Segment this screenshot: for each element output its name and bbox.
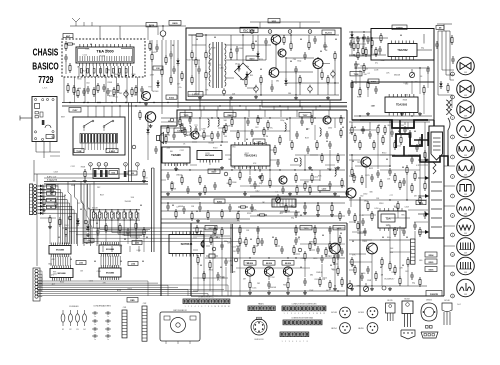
svg-text:88: 88 [220,145,222,147]
svg-text:L104: L104 [131,263,135,266]
svg-text:BC548: BC548 [331,312,337,314]
svg-text:2K2: 2K2 [255,127,258,129]
coil L1 [208,118,209,128]
capacitor C93 [267,281,271,289]
IC U8 SN76544 [169,232,204,257]
svg-text:2K2: 2K2 [405,271,408,273]
legend vertical strip CN10 [122,307,127,338]
label box BF459 R [244,261,256,266]
test point row [89,163,140,171]
svg-text:R412: R412 [369,168,373,170]
svg-text:120R: 120R [304,182,309,184]
svg-text:C112: C112 [71,166,75,168]
svg-text:100n: 100n [387,237,391,239]
capacitor C131 [423,211,427,219]
svg-text:R518: R518 [247,213,251,215]
wire vif h2 [161,141,228,143]
svg-text:88: 88 [330,265,332,267]
resistor R56 [274,145,276,155]
resistor R72 [257,115,259,125]
title: CHASIS BASICO 7729 [32,46,59,89]
CRT gun [431,132,443,160]
legend fuse F3 [76,310,80,331]
resistor R88 [329,241,331,251]
svg-text:3: 3 [452,117,453,119]
svg-text:88: 88 [64,195,66,197]
svg-text:C112: C112 [380,60,384,62]
resistor R112 [357,221,359,231]
lower fan extensions to chroma [37,285,228,296]
power supply section box [186,28,341,100]
svg-text:C112: C112 [133,94,137,96]
resistor R15 [143,169,145,179]
svg-text:TP2: TP2 [357,162,360,164]
svg-text:R217: R217 [124,93,128,95]
resistor R7 [135,85,137,95]
svg-text:88: 88 [186,135,188,137]
svg-text:47u: 47u [375,62,378,64]
oscillogram 11 [457,257,475,275]
coil L2 [285,122,286,132]
capacitor C120 [410,156,414,164]
svg-text:1N4148: 1N4148 [125,201,131,203]
svg-text:120R: 120R [367,280,372,282]
svg-text:88: 88 [414,131,416,133]
svg-text:1n: 1n [94,324,96,326]
svg-text:680: 680 [415,82,418,84]
svg-text:C77: C77 [176,206,179,208]
junctions B [355,67,420,116]
wire psu bottom rail [188,94,339,96]
box A extra parts [349,36,377,60]
wire defl verticals [335,122,425,286]
diode array below U1 [82,75,134,77]
svg-text:88: 88 [240,79,242,81]
resistor R81 [304,181,306,191]
resistor R10 [151,52,153,62]
ground Q2 [149,124,153,128]
svg-text:TDA2582: TDA2582 [397,49,408,52]
svg-text:TUNE: TUNE [76,151,82,153]
wire left col stubs [38,271,42,297]
svg-text:88: 88 [335,39,337,41]
svg-text:R225: R225 [365,175,369,177]
resistor R105 [339,235,341,245]
svg-text:88: 88 [380,267,382,269]
resistor R94 [287,280,289,290]
right top corner parts [435,24,453,49]
svg-text:100n: 100n [85,49,89,51]
svg-text:1n: 1n [94,339,96,341]
svg-text:R308: R308 [363,241,367,243]
electrolytic C26 [331,70,335,78]
capacitor C74 [300,118,304,126]
svg-text:1N4148: 1N4148 [316,272,322,274]
svg-text:1N4148: 1N4148 [357,233,363,235]
capacitor C111 [347,208,351,216]
resistor R50 [184,127,186,137]
svg-text:5K6: 5K6 [131,197,134,199]
svg-text:330p: 330p [280,120,284,122]
resistor array below U1 [80,69,127,74]
svg-text:88: 88 [238,211,240,213]
svg-text:2: 2 [270,31,271,33]
svg-text:C208: C208 [405,206,409,208]
resistor R12 [170,75,172,85]
svg-text:CN1: CN1 [123,307,127,309]
svg-text:680: 680 [131,219,134,221]
svg-text:C64: C64 [231,167,234,169]
wire bus below U1 [79,66,132,77]
legend vertical strip CN11 [142,303,147,341]
svg-text:1n: 1n [94,332,96,334]
connector pin circles [34,185,46,215]
capacitor C2 [86,86,90,94]
svg-text:88: 88 [352,265,354,267]
capacitor C90 [303,278,307,286]
svg-text:BC308: BC308 [358,312,364,314]
video extra wires [161,128,335,186]
capacitor C71 [246,118,250,126]
wire fan staircase right [68,182,97,247]
IC U7 TDA2541 [231,142,270,169]
resistor R52 [225,123,227,133]
svg-text:C77: C77 [177,83,180,85]
legend TO3 pin base [421,332,438,338]
junctions mid [167,202,332,203]
svg-text:E.MHZ: E.MHZ [109,151,116,153]
resistor R67 [171,181,173,191]
svg-text:88: 88 [290,61,292,63]
svg-text:C330: C330 [275,203,279,205]
chroma mesh lines [193,236,345,278]
resistor R21 [252,41,254,51]
transistor Q32 [283,267,292,276]
resistor R118 [419,195,421,205]
resistor R72 [317,203,319,213]
EHT arc [448,118,450,156]
svg-text:E2582: E2582 [396,28,403,30]
svg-text:SN16889: SN16889 [56,250,65,252]
transistor Q10 [271,35,281,45]
resistor R97 [197,255,199,265]
oscillogram index 12 [451,294,455,298]
resistor R73 [331,203,333,213]
wire vif h5 [230,131,345,155]
svg-text:0.1: 0.1 [72,181,75,183]
svg-text:C112: C112 [255,190,259,192]
svg-text:120R: 120R [309,290,314,292]
svg-text:88: 88 [354,127,356,129]
resistor R71 [257,214,267,216]
svg-text:SN16889: SN16889 [106,249,115,251]
svg-text:R217: R217 [324,46,328,48]
left extra parts [51,185,145,237]
legend fuse F2 [69,310,73,331]
video sound subsection parts [161,117,225,141]
resistor R113 [351,257,353,267]
label kb1 [84,239,94,243]
svg-text:88: 88 [96,223,98,225]
legend fuse F4 [83,310,87,331]
label box P-WY [69,108,81,113]
junctions chroma [214,227,338,291]
wire vif verticals [176,111,335,182]
capacitor C81 [220,242,224,250]
IC U10 SN16889 A [49,243,71,258]
svg-text:5K6: 5K6 [232,146,235,148]
resistor R53 [239,170,241,180]
CRT electrode ticks [431,182,442,227]
svg-text:5K6: 5K6 [390,252,393,254]
fan between IC rows [51,256,120,266]
switch lever S1 [83,120,94,131]
resistor R23 [290,41,292,51]
label box TV07 [299,113,311,118]
legend tuner drawing [160,309,200,344]
label box L210 [318,186,330,191]
resistor R92 [249,280,251,290]
label box TV08 [350,72,362,77]
label box TV26 [146,23,157,28]
tuner bottom stubs [36,142,60,159]
svg-text:10: 10 [451,254,453,256]
svg-text:88: 88 [58,237,60,239]
component value annotations [48,39,424,293]
resistor R130 [419,227,421,237]
oscillogram index 2 [451,95,455,99]
resistor R33 [380,33,382,43]
svg-text:1n: 1n [94,316,96,318]
wire chroma verticals [198,228,338,291]
svg-text:R518: R518 [213,148,217,150]
label box L4707 [188,92,203,97]
svg-text:TDA: TDA [386,218,391,221]
zener D14 [284,78,287,86]
resistor R107 [361,175,363,185]
left connector circle column [35,269,38,298]
svg-text:88: 88 [124,239,126,241]
capacitor C21 [294,66,298,74]
svg-text:E30: E30 [156,68,159,70]
svg-text:88: 88 [298,237,300,239]
svg-text:8K2: 8K2 [87,208,90,210]
capacitor C127 [363,228,367,236]
svg-text:3: 3 [291,313,292,315]
svg-text:R518: R518 [357,96,361,98]
label box keyboard R [106,149,118,153]
resistor R5 [97,83,99,93]
junctions vif [199,117,330,192]
label box E259 [368,79,379,84]
horizontal bus pair y103/106 [62,102,347,107]
wire chroma h3 [193,290,345,292]
svg-text:4: 4 [195,306,196,308]
long routing lines keyboard to chroma [62,228,240,296]
svg-text:C112: C112 [232,246,236,248]
main bottom border [191,238,444,296]
right column connect stubs [444,166,455,266]
resistor R122 [377,125,379,135]
svg-text:3: 3 [105,164,106,166]
svg-text:TP2: TP2 [76,95,79,97]
label box BF459 G [263,261,275,266]
svg-text:88: 88 [426,159,428,161]
svg-text:47u: 47u [51,274,54,276]
svg-text:R610: R610 [77,79,81,81]
capacitor C42 [354,61,358,69]
svg-text:R412: R412 [104,254,108,256]
svg-text:C330: C330 [328,127,332,129]
label kb4 [128,262,138,266]
svg-text:R308: R308 [108,82,112,84]
label box TV05 [180,113,192,118]
label kb2 [132,241,142,245]
deflection extra wires [349,122,428,270]
coil L5 [335,167,336,177]
keyboard contact row dark [80,134,118,151]
chroma extra parts [196,225,344,287]
electrolytic pair 3 [105,170,108,177]
svg-text:0.1: 0.1 [219,65,222,67]
capacitor C79 [253,181,257,189]
transistor Q40 [361,157,371,167]
resistor R76 [340,115,342,125]
switch lever S2 [103,120,114,131]
svg-text:F1: F1 [62,329,64,331]
tuner box [32,97,65,142]
label L4004 [416,201,426,205]
video extra dots [175,117,341,170]
wire psu horizontals [226,45,339,88]
svg-text:330p: 330p [224,241,228,243]
svg-text:C330: C330 [404,95,408,97]
svg-text:88: 88 [214,37,216,39]
label box mid [214,199,225,203]
wire mid h2 [161,210,290,212]
resistor R26 [327,75,329,85]
svg-text:R610: R610 [50,181,54,183]
CRT drive arrows [418,158,429,234]
svg-text:4: 4 [452,137,453,139]
svg-text:8K2: 8K2 [228,159,231,161]
oscillogram index 4 [451,135,455,139]
transistor Q21 [279,176,287,184]
svg-text:88: 88 [382,237,384,239]
extra parts right of module [149,25,183,88]
resistor R124 [367,201,369,211]
svg-text:0.1: 0.1 [416,165,419,167]
svg-text:2K2: 2K2 [119,93,122,95]
capacitor C82 [328,181,332,189]
svg-text:CONEXION DE SINTONIA: CONEXION DE SINTONIA [291,317,313,320]
label box E207 [208,169,220,174]
svg-text:88: 88 [320,51,322,53]
label stack 3 [425,267,437,272]
wire module drops to bus [64,77,138,103]
resistor R64 [337,153,339,163]
svg-text:C77: C77 [390,195,393,197]
resistor R14 [84,169,86,179]
resistor R125 [397,201,399,211]
posistor PTC1 [160,31,166,40]
svg-text:C410: C410 [313,258,317,260]
capacitor C13 [154,146,158,154]
section B borders [352,29,434,121]
svg-text:88: 88 [406,237,408,239]
svg-text:88: 88 [120,261,122,263]
svg-text:R610: R610 [327,168,331,170]
svg-text:C112: C112 [83,55,87,57]
svg-text:2: 2 [188,306,189,308]
capacitor C66 [166,172,170,180]
svg-text:4K7: 4K7 [82,70,85,72]
svg-text:2N3055: 2N3055 [426,300,432,302]
crystal X1 [206,254,218,258]
resistor R86 [314,236,316,246]
psu extra wires [192,35,322,95]
svg-text:120R: 120R [64,225,69,227]
resistor R106 [329,280,331,290]
lower bus fan [37,281,218,296]
capacitor C41 [426,66,430,74]
resistor R2 module top [65,43,75,45]
svg-text:L30: L30 [131,173,134,175]
svg-text:5K6: 5K6 [288,93,291,95]
svg-text:R225: R225 [292,207,296,209]
svg-text:33p: 33p [230,265,233,267]
psu extra parts [195,35,323,96]
wire mid h3 [161,218,250,220]
svg-text:C64: C64 [245,263,248,265]
svg-text:1: 1 [452,74,453,76]
wire top feed [100,26,186,39]
capacitor C3 [106,88,110,96]
svg-text:C330: C330 [363,194,367,196]
mains transformer T1 [209,42,226,88]
svg-text:BC548: BC548 [153,91,159,93]
IC U3 TDA2582 [388,41,417,60]
capacitor C28b [197,66,201,74]
label box C1042 [174,128,185,132]
svg-text:C64: C64 [56,185,59,187]
capacitor C108 [388,168,392,176]
svg-text:R225: R225 [117,290,121,292]
oscillogram 10 [457,238,475,256]
svg-text:SN76544: SN76544 [181,242,193,246]
legend fuse F1 [61,310,65,331]
svg-text:88: 88 [246,139,248,141]
right edge vertical wires [438,31,454,108]
svg-text:E605: E605 [172,23,178,25]
wire vif h1 [161,117,345,119]
svg-text:R308: R308 [403,99,407,101]
svg-text:88: 88 [386,159,388,161]
coil L4 [320,127,321,137]
svg-text:88: 88 [172,45,174,47]
svg-text:88: 88 [142,261,144,263]
junctions defl [334,121,420,286]
resistor R28b [191,50,193,60]
svg-text:88: 88 [400,35,402,37]
antenna input marks [70,18,100,26]
svg-text:SINTONIZADOR: SINTONIZADOR [173,309,187,312]
legend TO92 bottom view 4 [358,323,378,334]
svg-text:CONEXION DE CC: CONEXION DE CC [198,297,214,299]
connector labels [47,185,56,209]
capacitor C51 [216,131,220,139]
svg-text:88: 88 [378,125,380,127]
